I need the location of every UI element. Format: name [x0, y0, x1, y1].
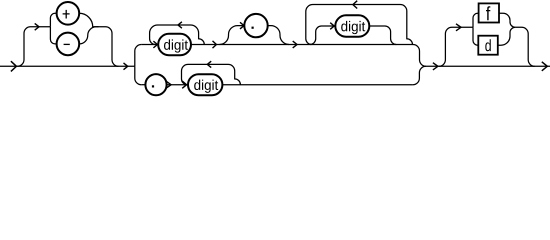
arrow: fraction loop back [353, 1, 357, 9]
label: digit (integer) [164, 39, 188, 52]
wire: sign rejoin down [96, 27, 118, 67]
arrow: after integer digit [213, 41, 217, 48]
wire: plus exit [79, 13, 98, 26]
terminal f (float suffix) [479, 3, 499, 22]
arrow: after bottom dot [166, 81, 171, 88]
wire: entry baseline [0, 65, 135, 67]
label: digit (bottom) [194, 80, 218, 93]
wire: bottom lane to merge [222, 84, 413, 86]
wire: suffix branch up [439, 27, 473, 66]
terminal d (double suffix) [478, 36, 498, 55]
wire: split to f [473, 13, 479, 27]
arrow: into dot [240, 22, 244, 29]
arrow: into fraction digit [330, 23, 334, 30]
terminal "." circle (bottom) [145, 74, 166, 95]
wire: integer digit repeat loop [150, 25, 205, 45]
wire: split up to integer alternative [135, 45, 142, 67]
label: d [485, 39, 490, 51]
arrow: into sign choice [35, 23, 39, 30]
wire: split to plus [50, 13, 56, 26]
arrow: into bottom digit [182, 81, 186, 88]
dot glyph (top) [252, 27, 254, 29]
non-terminal digit (fraction part) [335, 15, 369, 36]
non-terminal digit (integer part) [158, 34, 191, 56]
wire: dot branch up [220, 26, 245, 45]
wire: sign branch up [17, 27, 50, 67]
wire: bottom digit repeat loop [181, 64, 240, 84]
terminal "-" circle [57, 33, 80, 56]
plus sign glyph [63, 10, 70, 19]
wire: d exit [498, 27, 516, 45]
dot glyph (bottom) [152, 85, 154, 87]
terminal "." circle (top) [244, 14, 267, 37]
wire: top lane through bypasses [191, 44, 413, 46]
wire: split to minus [50, 27, 56, 44]
arrow: into suffix choice [456, 24, 461, 31]
wire: top lane to digit [141, 44, 158, 46]
wire: minus exit [79, 27, 96, 44]
wire: f exit [499, 13, 515, 27]
wire: fraction digit exit down [369, 26, 396, 45]
wire: bottom branch merge up [413, 66, 426, 84]
arrow: before alternatives [124, 63, 128, 70]
arrow: before suffix [433, 63, 438, 70]
minus sign glyph [64, 43, 70, 45]
wire: suffix rejoin down [515, 27, 534, 66]
wire: into bottom dot [141, 84, 145, 86]
wire: riser into fraction digit [310, 26, 335, 45]
wire: fraction digit loop [306, 5, 413, 45]
label: digit (fraction) [341, 21, 365, 34]
non-terminal digit (bottom alternative) [188, 74, 222, 95]
arrow: entry [11, 61, 17, 71]
wire: top branch merge down [413, 45, 426, 67]
label: f [486, 6, 490, 20]
wire: bottom dot to digit [167, 84, 188, 86]
arrow: integer loop back [178, 22, 182, 28]
wire: split down to fraction-only alternative [135, 66, 142, 84]
wire: split to d [473, 27, 478, 45]
terminal "+" circle [57, 2, 80, 25]
arrow: exit [542, 62, 548, 71]
wire: dot branch down [268, 26, 289, 45]
wire: exit baseline [426, 65, 550, 67]
arrow: bottom loop back [207, 61, 211, 67]
arrow: after dot option [293, 41, 297, 48]
arrow: into integer digit [153, 41, 157, 48]
